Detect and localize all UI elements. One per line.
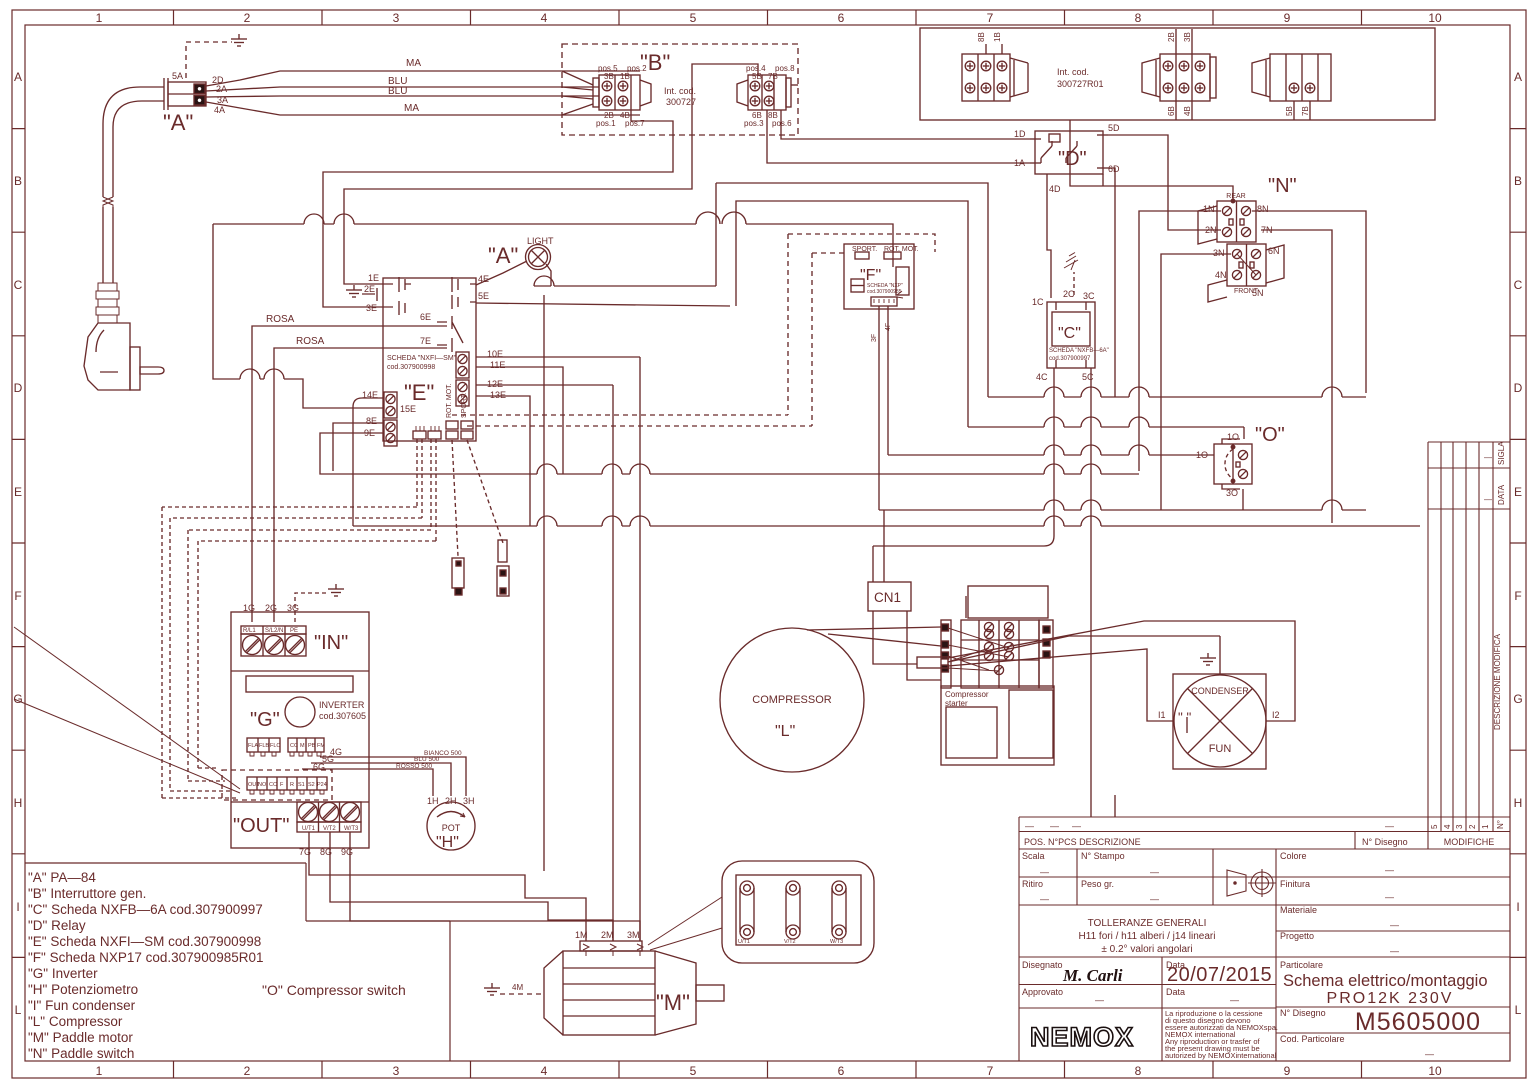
- svg-text:U/T1: U/T1: [302, 826, 316, 832]
- wires 4G 5G 6G to potentiometer: [302, 757, 466, 796]
- svg-text:SIGLA: SIGLA: [1497, 441, 1506, 465]
- svg-text:4M: 4M: [512, 983, 523, 992]
- svg-text:1: 1: [96, 11, 103, 25]
- svg-text:"F": "F": [860, 267, 881, 284]
- svg-text:3: 3: [1455, 824, 1464, 829]
- svg-text:N°: N°: [1496, 820, 1505, 829]
- bus from B area y=172 vertical x=323 is in B section; bus y=222 main: [213, 212, 893, 267]
- svg-text:POS. N°PCS DESCRIZIONE: POS. N°PCS DESCRIZIONE: [1024, 837, 1141, 847]
- bus y397 from E 12E to right: [988, 387, 1366, 397]
- svg-text:5B: 5B: [752, 72, 762, 81]
- svg-text:—: —: [1040, 867, 1049, 877]
- svg-text:3F: 3F: [871, 334, 878, 342]
- svg-text:—: —: [1484, 453, 1492, 462]
- svg-text:7: 7: [987, 11, 994, 25]
- title block column dividers: [1077, 817, 1428, 1061]
- E labels 6E 7E: [420, 312, 431, 346]
- bus left drop x=213: [213, 224, 384, 408]
- bus y=183 F feed: [716, 183, 988, 397]
- wire B to relay D pin 1A: [767, 110, 1030, 163]
- wire CN1 bottom left to starter lug: [873, 611, 917, 664]
- svg-text:"D": "D": [1058, 148, 1087, 170]
- svg-text:12E: 12E: [487, 379, 503, 389]
- wire B to E board 3E (via left drop): [323, 110, 673, 307]
- wire 4E to lamp: [476, 261, 527, 285]
- svg-text:"IN": "IN": [314, 632, 348, 654]
- wires A to B: MA: [206, 71, 640, 115]
- svg-text:FLA: FLA: [248, 743, 258, 749]
- svg-text:"O": "O": [1255, 424, 1285, 446]
- svg-text:4D: 4D: [1049, 184, 1061, 194]
- dashed drops from E bottom connectors: [417, 439, 436, 541]
- wire 14E left drop: [353, 398, 384, 526]
- svg-text:Data: Data: [1166, 987, 1185, 997]
- wire O bottom to bus 508: [1242, 489, 1244, 510]
- svg-text:1O: 1O: [1227, 432, 1239, 442]
- ROSA labels: [266, 314, 325, 347]
- svg-text:—: —: [1390, 920, 1399, 930]
- svg-text:B: B: [14, 174, 22, 188]
- svg-text:PB: PB: [308, 743, 316, 749]
- svg-text:Progetto: Progetto: [1280, 931, 1314, 941]
- board F outline: [844, 244, 914, 309]
- svg-text:9G: 9G: [341, 847, 353, 857]
- loose connector pair A: [452, 558, 464, 595]
- svg-text:4E: 4E: [478, 274, 489, 284]
- wire C 4C down: [1053, 375, 1055, 536]
- B int. cod. text: [664, 86, 696, 107]
- motor terminals: [583, 944, 643, 956]
- svg-text:8: 8: [1135, 1064, 1142, 1078]
- svg-text:"H" Potenziometro: "H" Potenziometro: [28, 982, 138, 997]
- svg-text:5N: 5N: [1252, 288, 1264, 298]
- svg-text:ROT. MOT.: ROT. MOT.: [884, 246, 919, 253]
- leader lines motor to detail: [648, 897, 722, 950]
- svg-text:—: —: [1040, 894, 1049, 904]
- paddle switch detail box: [722, 861, 874, 963]
- G display bar: [246, 676, 353, 692]
- right row letters: [1513, 70, 1522, 1017]
- wire D 4D to board C 1C: [1047, 183, 1051, 298]
- svg-text:V/T2: V/T2: [323, 826, 336, 832]
- svg-text:S/L2/N: S/L2/N: [265, 628, 283, 634]
- svg-text:H11 fori / h11 alberi /: H11 fori / h11 alberi / j14 lineari: [1079, 931, 1216, 942]
- E pin 3E contact: [370, 301, 405, 315]
- svg-text:"L": "L": [775, 723, 795, 740]
- wire N 1N left and down: [1139, 211, 1221, 471]
- svg-text:4: 4: [541, 11, 548, 25]
- F bottom connector: [871, 291, 903, 306]
- svg-text:ROSA: ROSA: [266, 314, 295, 325]
- svg-text:5: 5: [1430, 824, 1439, 829]
- svg-text:3: 3: [393, 1064, 400, 1078]
- FLA labels: [248, 743, 280, 749]
- svg-text:"O" Compressor switch: "O" Compressor switch: [262, 982, 406, 998]
- svg-text:5: 5: [690, 11, 697, 25]
- svg-text:L: L: [1515, 1003, 1522, 1017]
- legend text list: [28, 870, 264, 1061]
- svg-text:Materiale: Materiale: [1280, 905, 1317, 915]
- top right terminal section box: [920, 28, 1435, 120]
- N pin labels: [1203, 204, 1280, 298]
- wire lamp right down to bus: [546, 264, 551, 286]
- svg-text:11E: 11E: [490, 360, 505, 370]
- dashed link E rot connector to F: [452, 414, 788, 416]
- E screw terminals 14E 15E 8E 9E: [384, 392, 397, 446]
- board C texts: [1049, 348, 1109, 362]
- svg-text:R: R: [290, 782, 294, 788]
- E SPORT connector: [461, 421, 473, 439]
- svg-text:DESCRIZIONE MODIFICA: DESCRIZIONE MODIFICA: [1493, 633, 1502, 730]
- svg-text:Colore: Colore: [1280, 851, 1307, 861]
- paddle motor M body: [544, 941, 724, 1035]
- svg-text:I2: I2: [1272, 710, 1280, 720]
- svg-text:—: —: [1150, 867, 1159, 877]
- E screw terminals 10E-13E: [456, 352, 469, 406]
- labels 7G 8G 9G: [299, 847, 353, 857]
- svg-text:1H: 1H: [427, 796, 439, 806]
- svg-text:9: 9: [1284, 11, 1291, 25]
- right reference band ticks: [1510, 129, 1526, 958]
- svg-text:ROT. MOT.: ROT. MOT.: [446, 383, 453, 418]
- T2 labels rotated: [1167, 32, 1192, 116]
- svg-text:E: E: [1514, 485, 1522, 499]
- bus y=201 from 5E riser: [476, 201, 968, 427]
- interruttore B dashed enclosure: [562, 44, 798, 135]
- svg-text:Int. cod.: Int. cod.: [664, 86, 696, 96]
- svg-text:NEMOX: NEMOX: [1030, 1022, 1134, 1052]
- lamp LIGHT: [526, 245, 551, 270]
- svg-text:—: —: [1385, 865, 1394, 875]
- svg-text:1: 1: [1481, 824, 1490, 829]
- svg-text:CC: CC: [290, 743, 298, 749]
- svg-text:COMPRESSOR: COMPRESSOR: [752, 694, 832, 706]
- condenser fan circle: [1174, 675, 1266, 767]
- F SPORT connector: [855, 252, 869, 259]
- svg-text:NO: NO: [258, 782, 267, 788]
- B left terminal block: [593, 75, 651, 110]
- svg-text:cod.307900985: cod.307900985: [867, 289, 902, 295]
- board E texts: [387, 355, 457, 371]
- svg-text:—: —: [1230, 995, 1239, 1005]
- svg-text:7B: 7B: [1301, 106, 1310, 116]
- svg-text:"A": "A": [488, 243, 518, 268]
- svg-text:F: F: [14, 589, 21, 603]
- svg-text:Approvato: Approvato: [1022, 987, 1063, 997]
- svg-text:SCHEDA "NXFB—6A": SCHEDA "NXFB—6A": [1049, 348, 1109, 354]
- connector CN1: [868, 582, 911, 611]
- svg-text:"C": "C": [1058, 325, 1081, 342]
- svg-text:—: —: [1050, 821, 1059, 831]
- legal reproduction note: [1165, 1009, 1278, 1060]
- svg-text:C: C: [14, 278, 23, 292]
- svg-text:FM: FM: [317, 743, 325, 749]
- svg-text:—: —: [1072, 821, 1081, 831]
- svg-text:3E: 3E: [366, 303, 377, 313]
- svg-text:6E: 6E: [420, 312, 431, 322]
- svg-text:"G" Inverter: "G" Inverter: [28, 966, 98, 981]
- svg-text:2E: 2E: [364, 284, 375, 294]
- svg-text:FLC: FLC: [270, 743, 280, 749]
- svg-text:2A: 2A: [216, 84, 227, 94]
- E pin labels 1E 2E 3E: [364, 273, 379, 313]
- starter lug: [917, 657, 948, 668]
- board C 2C dashed ground lead: [1064, 253, 1078, 296]
- svg-text:4: 4: [1443, 824, 1452, 829]
- svg-text:7B: 7B: [768, 72, 778, 81]
- svg-text:U/T1: U/T1: [738, 939, 750, 945]
- svg-text:pos.2: pos.2: [627, 64, 647, 73]
- revision strip columns: [1428, 442, 1510, 832]
- svg-text:"E": "E": [404, 380, 434, 405]
- svg-text:MODIFICHE: MODIFICHE: [1444, 837, 1495, 847]
- condenser ground: [1200, 636, 1220, 674]
- tolerance note: [1079, 918, 1216, 955]
- left row letters: [13, 70, 22, 1017]
- bus y455 F to switch O: [888, 445, 1214, 455]
- wire 9G to motor: [350, 832, 640, 941]
- svg-text:pos.6: pos.6: [772, 119, 792, 128]
- svg-text:"A": "A": [163, 110, 193, 135]
- title block small labels: [1022, 851, 1434, 1059]
- svg-text:Particolare: Particolare: [1280, 960, 1323, 970]
- svg-text:1A: 1A: [1014, 158, 1025, 168]
- svg-text:G: G: [1513, 692, 1522, 706]
- svg-text:2C: 2C: [1063, 289, 1075, 299]
- svg-text:SCHEDA "NXFI—SM": SCHEDA "NXFI—SM": [387, 355, 457, 362]
- ROSA wire 6E: [252, 326, 447, 622]
- wire starter to condenser I2: [948, 621, 1295, 721]
- svg-text:5C: 5C: [1082, 372, 1094, 382]
- dashed bus nest verticals: [162, 507, 198, 798]
- E bottom pin connectors: [413, 426, 441, 439]
- svg-text:9: 9: [1284, 1064, 1291, 1078]
- wire D 5D to N 2N: [1108, 135, 1221, 230]
- svg-text:"D" Relay: "D" Relay: [28, 918, 86, 933]
- svg-text:CONDENSER: CONDENSER: [1191, 686, 1249, 696]
- svg-text:"F" Scheda NXP17 cod.307900: "F" Scheda NXP17 cod.307900985R01: [28, 950, 264, 965]
- wire N 7N right and down: [1261, 230, 1332, 523]
- paddle switch N lower block: [1208, 244, 1284, 302]
- svg-text:"E" Scheda NXFI—SM cod.3079: "E" Scheda NXFI—SM cod.307900998: [28, 934, 261, 949]
- svg-text:M5605000: M5605000: [1355, 1008, 1481, 1036]
- E pin 1E contact: [370, 277, 411, 292]
- svg-text:MA: MA: [406, 58, 421, 69]
- svg-text:3C: 3C: [1083, 291, 1095, 301]
- svg-text:CC: CC: [269, 782, 277, 788]
- svg-text:8N: 8N: [1257, 204, 1269, 214]
- F pin wires down to CN1: [879, 306, 888, 510]
- bottom column numbers: [96, 1064, 1442, 1078]
- svg-text:—: —: [1385, 821, 1394, 831]
- svg-text:POT: POT: [442, 823, 461, 833]
- top reference band ticks: [174, 10, 1362, 25]
- svg-text:A: A: [1514, 70, 1522, 84]
- riser CN1 top feed: [873, 510, 884, 582]
- wire labels 4G 5G 6G: [313, 747, 342, 772]
- svg-text:—: —: [1025, 821, 1034, 831]
- bus y526 14E to far right: [353, 516, 1420, 526]
- svg-text:PE: PE: [290, 628, 298, 634]
- compressor switch O box: [1214, 439, 1252, 489]
- svg-text:"H": "H": [436, 834, 459, 851]
- svg-text:pos.8: pos.8: [775, 64, 795, 73]
- svg-text:I1: I1: [1158, 710, 1166, 720]
- svg-text:3: 3: [393, 11, 400, 25]
- svg-text:ROSA: ROSA: [296, 336, 325, 347]
- svg-text:5D: 5D: [1108, 123, 1120, 133]
- svg-text:1E: 1E: [368, 273, 379, 283]
- bus y474 8E to N riser: [333, 464, 1139, 474]
- svg-text:W/T3: W/T3: [344, 826, 359, 832]
- wire starter to condenser I1: [948, 649, 1173, 721]
- svg-text:—: —: [1150, 894, 1159, 904]
- wires inside B from A lines: [562, 71, 593, 115]
- svg-text:4B: 4B: [1183, 106, 1192, 116]
- svg-text:2H: 2H: [445, 796, 457, 806]
- wire 8E left drop: [333, 423, 384, 471]
- IN terminal strip: [241, 626, 306, 656]
- svg-text:C: C: [1514, 278, 1523, 292]
- wire 13E drop to bus: [476, 396, 530, 526]
- svg-text:15E: 15E: [400, 404, 416, 414]
- svg-text:B: B: [1514, 174, 1522, 188]
- svg-text:1G: 1G: [243, 603, 255, 613]
- wire 12E to riser: [476, 384, 613, 386]
- supply cable from connector A: [103, 87, 164, 283]
- E connector rotated labels: [446, 383, 468, 418]
- N block tiny labels: [1226, 193, 1259, 295]
- svg-text:cod.307900998: cod.307900998: [387, 364, 435, 371]
- B right terminal labels: [744, 64, 795, 128]
- svg-text:Cod. Particolare: Cod. Particolare: [1280, 1034, 1345, 1044]
- OUT multi connector: [247, 777, 327, 794]
- svg-text:PRO12K 230V: PRO12K 230V: [1327, 990, 1454, 1007]
- svg-text:7E: 7E: [420, 336, 431, 346]
- ROSA wire 7E: [274, 348, 447, 622]
- wire 7G to motor: [309, 832, 586, 941]
- wires compressor to starter: [807, 627, 941, 646]
- E ROT MOT connector: [446, 421, 458, 439]
- bus y427 from E 13E to switch O: [968, 417, 1244, 427]
- paddle switch N upper block: [1198, 199, 1256, 244]
- svg-text:A: A: [14, 70, 22, 84]
- wire starter to condenser top: [948, 636, 1220, 662]
- svg-text:"N" Paddle switch: "N" Paddle switch: [28, 1046, 134, 1061]
- svg-text:E: E: [14, 485, 22, 499]
- svg-text:S2: S2: [308, 782, 315, 788]
- svg-text:8E: 8E: [366, 416, 377, 426]
- svg-text:5E: 5E: [478, 291, 489, 301]
- bus y508 CN1 to right: [879, 500, 1366, 510]
- svg-text:D: D: [14, 381, 23, 395]
- svg-text:V/T2: V/T2: [784, 939, 796, 945]
- svg-text:BLU 500: BLU 500: [414, 756, 440, 763]
- svg-text:pos.1: pos.1: [596, 119, 616, 128]
- starter terminal left bar: [941, 620, 951, 688]
- title block outline: [1019, 817, 1510, 1061]
- condenser fan box: [1173, 674, 1266, 769]
- T3 labels rotated: [1285, 106, 1310, 116]
- IN strip cell labels: [243, 628, 298, 634]
- 3G dashed ground: [295, 584, 344, 622]
- schuko plug: [84, 283, 164, 390]
- F tiny text: [867, 283, 903, 295]
- svg-text:CN1: CN1: [874, 590, 901, 605]
- svg-text:2: 2: [1468, 824, 1477, 829]
- svg-text:2M: 2M: [601, 930, 614, 940]
- svg-text:H: H: [14, 796, 23, 810]
- svg-text:—: —: [1425, 1049, 1434, 1059]
- CC labels: [290, 743, 325, 749]
- B left terminal labels: [596, 64, 647, 128]
- wire 8G to motor: [330, 832, 613, 941]
- svg-text:Disegnato: Disegnato: [1022, 960, 1063, 970]
- svg-text:1: 1: [96, 1064, 103, 1078]
- bus y546 CN1 to C 4C: [873, 536, 1054, 546]
- ground at connector A (dashed lead): [186, 34, 247, 78]
- svg-text:M: M: [300, 743, 305, 749]
- F pin rotated labels: [871, 323, 892, 342]
- svg-text:1B: 1B: [620, 72, 630, 81]
- board F dashed enclosure: [788, 234, 935, 426]
- F ROT MOT connector: [884, 252, 901, 259]
- svg-text:6D: 6D: [1108, 164, 1120, 174]
- svg-text:3O: 3O: [1226, 488, 1238, 498]
- starter label: [945, 690, 989, 708]
- svg-text:TOLLERANZE GENERALI: TOLLERANZE GENERALI: [1088, 918, 1207, 929]
- svg-text:S1: S1: [298, 782, 305, 788]
- svg-text:"C" Scheda NXFB—6A cod.3079: "C" Scheda NXFB—6A cod.307900997: [28, 902, 263, 917]
- svg-text:—: —: [1484, 495, 1492, 504]
- wire CN1 bottom right to starter: [907, 611, 941, 680]
- svg-text:10: 10: [1428, 11, 1442, 25]
- OUT multi labels: [248, 782, 327, 788]
- svg-text:6: 6: [838, 1064, 845, 1078]
- svg-text:Compressor: Compressor: [945, 690, 989, 699]
- relay D labels: [1014, 123, 1120, 194]
- CC M PB FM connector: [288, 738, 324, 756]
- svg-text:SPORT.: SPORT.: [461, 393, 468, 418]
- svg-text:M. Carli: M. Carli: [1062, 966, 1123, 985]
- svg-text:FLB: FLB: [259, 743, 269, 749]
- legend box: [25, 863, 450, 1061]
- wire 11E drop to bus: [476, 367, 563, 474]
- svg-text:H: H: [1514, 796, 1523, 810]
- svg-text:8B: 8B: [977, 32, 986, 42]
- svg-text:—: —: [1390, 946, 1399, 956]
- motor labels 1M 2M 3M: [575, 930, 640, 940]
- terminal group T3: [1252, 54, 1331, 120]
- E pin labels 4E 5E: [478, 274, 489, 301]
- svg-text:1N: 1N: [1203, 204, 1215, 214]
- svg-text:4N: 4N: [1215, 270, 1227, 280]
- svg-text:"B" Interruttore gen.: "B" Interruttore gen.: [28, 886, 146, 901]
- svg-text:N° Disegno: N° Disegno: [1280, 1008, 1326, 1018]
- terminal group T1: [962, 44, 1028, 101]
- svg-text:6B: 6B: [1167, 106, 1176, 116]
- svg-text:300727R01: 300727R01: [1057, 79, 1104, 89]
- dashed bus nest horizontals: [162, 507, 436, 541]
- svg-text:"M": "M": [656, 990, 690, 1015]
- svg-text:N° Stampo: N° Stampo: [1081, 851, 1125, 861]
- svg-text:"M" Paddle motor: "M" Paddle motor: [28, 1030, 133, 1045]
- svg-text:"I" Fun condenser: "I" Fun condenser: [28, 998, 136, 1013]
- E pin 5E contact: [452, 295, 476, 309]
- svg-text:FUN: FUN: [1209, 743, 1232, 755]
- svg-text:pos.3: pos.3: [744, 119, 764, 128]
- top column numbers: [96, 11, 1442, 25]
